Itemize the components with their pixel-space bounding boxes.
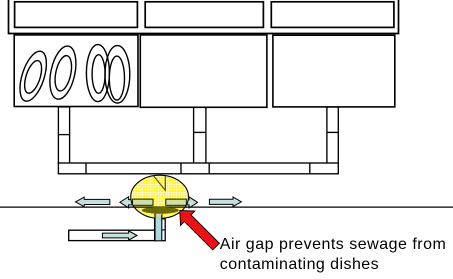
long right arrow [209, 197, 241, 207]
drain leg 3 [327, 107, 338, 163]
air gap circle [131, 175, 189, 218]
short right arrow [182, 197, 198, 208]
standpipe joint tick [162, 229, 165, 231]
red callout arrow [180, 210, 220, 250]
dish oval 3 [86, 45, 109, 102]
svg-text:Air gap prevents sewage from: Air gap prevents sewage from [220, 236, 447, 253]
countertop outer frame [9, 0, 399, 34]
drain leg 2 [194, 107, 206, 163]
dish oval 4 [105, 46, 130, 103]
drain leg 1 [58, 107, 69, 163]
inlet wedge [153, 176, 165, 191]
funnel spout [155, 213, 162, 218]
bottom supply pipe [69, 230, 156, 240]
countertop panel 3 [271, 2, 394, 28]
funnel lip right [166, 199, 187, 205]
right cabinet box [273, 35, 395, 107]
bottom pipe arrow [102, 231, 137, 240]
svg-text:contaminating dishes: contaminating dishes [220, 256, 379, 273]
middle cabinet box [140, 35, 267, 107]
long left arrow [75, 197, 109, 207]
sewage pool [142, 207, 179, 214]
dishwasher box [14, 35, 138, 107]
funnel lip left [133, 199, 153, 205]
standpipe [155, 219, 166, 241]
dish oval 1 [15, 48, 52, 104]
dish oval 2 [46, 44, 81, 102]
horizontal drain pipe [58, 163, 338, 174]
floor line [0, 206, 453, 208]
countertop panel 2 [145, 2, 263, 28]
drain hose [155, 213, 162, 241]
countertop panel 1 [15, 2, 138, 28]
short left arrow [120, 197, 136, 208]
